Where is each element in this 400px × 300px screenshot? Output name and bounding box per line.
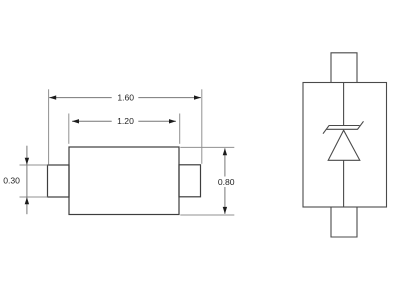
dimension 0.30 extension line top bbox=[20, 164, 48, 166]
package outline (top view) bbox=[303, 83, 387, 208]
dimension 1.60 extension line left bbox=[48, 89, 50, 164]
zener diode triangle (anode) bbox=[328, 130, 360, 160]
dimension 0.80 dimension line bbox=[223, 148, 227, 214]
dimension 1.20 dimension line bbox=[72, 119, 176, 123]
bottom pad bbox=[331, 207, 357, 237]
wire: anode lead line bbox=[343, 160, 345, 207]
svg-text:0.30: 0.30 bbox=[3, 176, 20, 186]
svg-text:1.20: 1.20 bbox=[117, 116, 134, 126]
right terminal lead bbox=[179, 165, 201, 197]
dimension 1.20 extension line right bbox=[179, 114, 181, 144]
svg-text:1.60: 1.60 bbox=[117, 93, 134, 103]
wire: cathode lead line bbox=[343, 83, 345, 127]
dimension 0.80 extension line bottom bbox=[180, 214, 234, 216]
package body outline (side view) bbox=[69, 147, 179, 215]
dimension 1.60 extension line right bbox=[201, 89, 203, 164]
svg-text:0.80: 0.80 bbox=[218, 177, 235, 187]
left terminal lead bbox=[48, 165, 70, 197]
dimension 0.30 dimension line bbox=[25, 146, 29, 215]
top pad bbox=[331, 53, 357, 83]
dimension 0.80 extension line top bbox=[180, 146, 234, 148]
dimension 0.30 extension line bottom bbox=[20, 196, 48, 198]
dimension 1.60 dimension line bbox=[49, 95, 201, 99]
dimension 1.20 extension line left bbox=[68, 114, 70, 144]
zener diode cathode bar bbox=[323, 121, 364, 133]
